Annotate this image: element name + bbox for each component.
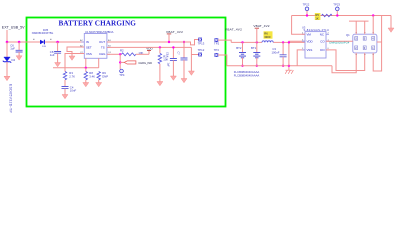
diode D4 TVS xyxy=(3,42,16,76)
ground arrow pack minus xyxy=(388,16,394,33)
test point TP10 xyxy=(303,2,310,16)
node junction (57.6,42) xyxy=(56,41,59,44)
block frame BATTERY CHARGING xyxy=(27,18,226,107)
node junction (357.3,16.8) xyxy=(372,14,374,16)
svg-text:VBAT_4V2: VBAT_4V2 xyxy=(166,30,183,34)
capacitor C5 xyxy=(166,46,177,76)
wire battery bottom rail xyxy=(227,65,332,67)
ground arrow R9 xyxy=(96,83,102,87)
ground chassis xyxy=(285,65,293,74)
ground arrow C4 xyxy=(62,95,68,99)
svg-text:TS: TS xyxy=(101,46,105,50)
wire U1 CHG row xyxy=(107,53,122,55)
wire TP3 to bottom rail xyxy=(218,55,227,66)
svg-text:TP22: TP22 xyxy=(303,2,310,6)
ground arrow D4 xyxy=(4,76,10,80)
ground arrow C8 xyxy=(55,63,61,67)
svg-text:100nF: 100nF xyxy=(272,51,280,55)
wire TP2 to battery rail xyxy=(218,40,231,42)
wire U3 VM riser xyxy=(292,16,305,35)
diode D35 xyxy=(32,28,53,48)
ground arrow U1 pin2 xyxy=(69,56,75,60)
svg-text:Q1: Q1 xyxy=(346,33,350,37)
wire U1 TS rail xyxy=(107,46,191,48)
wire U1 pin2 to ground xyxy=(67,47,84,56)
resistor R5 xyxy=(315,13,332,20)
wire U3 DO route xyxy=(326,50,365,71)
svg-text:OUT: OUT xyxy=(99,40,105,44)
node junction (288.9,42.4) xyxy=(288,41,290,43)
battery BT1 xyxy=(251,41,260,67)
ground arrow C6 xyxy=(16,56,22,60)
test point TP13 xyxy=(198,38,205,46)
wire Q1 top bar xyxy=(349,20,369,22)
wire U3 VSS down xyxy=(297,50,305,66)
svg-text:CHG: CHG xyxy=(99,52,106,56)
wire bottom rail to Q1 source xyxy=(332,53,356,73)
node junction (85.8,67.8) xyxy=(85,67,87,69)
inductor FB1 xyxy=(262,31,273,42)
wire R3 to C4 xyxy=(64,80,66,86)
svg-text:VSS: VSS xyxy=(307,48,313,52)
svg-text:NSR05F40NXT5G: NSR05F40NXT5G xyxy=(32,31,53,35)
node junction (7,42) xyxy=(6,41,9,44)
resistor R9 DNP xyxy=(97,71,108,82)
svg-text:3300: 3300 xyxy=(264,35,271,39)
test point TP11 xyxy=(333,2,340,16)
svg-text:CHRG_IND: CHRG_IND xyxy=(138,61,152,65)
svg-text:TP23: TP23 xyxy=(333,2,340,6)
power symbol VBAT_4V2 xyxy=(166,30,183,43)
wire pack minus top xyxy=(292,15,391,17)
svg-text:BT1: BT1 xyxy=(251,46,257,50)
wire TS rail end down xyxy=(190,47,192,71)
svg-text:DO: DO xyxy=(320,48,325,52)
test point TP12 xyxy=(198,48,205,56)
svg-text:SET: SET xyxy=(86,46,92,50)
transistor Q1 dual FET xyxy=(329,33,377,55)
power symbol VBAT_4V2 battery xyxy=(253,24,269,42)
test point TP4 xyxy=(119,69,125,77)
wire U1 bottom pins xyxy=(85,58,87,68)
svg-text:TP4: TP4 xyxy=(119,73,125,77)
wire EXT_USB_5V stub xyxy=(6,30,8,42)
svg-text:BATTERY CHARGING: BATTERY CHARGING xyxy=(59,20,137,28)
svg-text:1uF: 1uF xyxy=(50,53,55,57)
capacitor C3 xyxy=(272,41,287,67)
ground arrow R4 xyxy=(157,82,163,86)
port tag CHRG_IND xyxy=(120,61,152,65)
svg-text:1K: 1K xyxy=(315,16,318,20)
wire main input y42 xyxy=(7,41,84,43)
svg-text:TP3: TP3 xyxy=(214,48,220,52)
ground arrow TS rail xyxy=(188,71,194,75)
wire Q1 top risers xyxy=(355,21,357,34)
svg-text:VSS: VSS xyxy=(86,52,92,56)
svg-text:CO: CO xyxy=(320,39,325,43)
svg-text:1uF: 1uF xyxy=(167,63,170,68)
svg-text:3.4K: 3.4K xyxy=(89,74,95,78)
node junction (120.2,54.3) xyxy=(119,53,121,55)
svg-text:BT2: BT2 xyxy=(236,46,242,50)
wire Q1 right riser gate2 xyxy=(373,16,381,71)
resistor R4 xyxy=(158,47,169,81)
wire U1 OUT rail xyxy=(107,40,199,45)
svg-text:D4: D4 xyxy=(12,58,16,62)
svg-text:ESD05V32D-TP: ESD05V32D-TP xyxy=(9,84,13,113)
capacitor C6 xyxy=(10,42,22,56)
capacitor C4 xyxy=(62,85,77,94)
svg-text:TP2: TP2 xyxy=(214,42,220,46)
op-amp U1 charger IC xyxy=(80,30,114,58)
node junction (120.2,62.4) xyxy=(119,61,121,63)
resistor R8 3.4K xyxy=(84,68,95,83)
wire TP12 stub xyxy=(191,54,198,56)
svg-text:10nF: 10nF xyxy=(70,88,77,92)
svg-text:1uF: 1uF xyxy=(10,46,15,50)
wire battery top rail xyxy=(231,41,262,43)
wire U3 CO to Q1 xyxy=(326,40,353,42)
svg-text:R2: R2 xyxy=(120,49,124,53)
test point TP2 xyxy=(214,39,220,46)
svg-text:VDD: VDD xyxy=(307,39,313,43)
ground arrow C7 xyxy=(181,79,187,83)
IC U3 protection xyxy=(302,26,330,58)
svg-text:IN: IN xyxy=(86,40,89,44)
resistor R2 xyxy=(120,49,144,56)
svg-text:NC: NC xyxy=(320,33,324,37)
ground arrow C5 xyxy=(170,76,176,80)
wire R2 to VDD xyxy=(136,53,149,55)
svg-text:EXT_USB_5V: EXT_USB_5V xyxy=(2,26,25,30)
svg-text:TP12: TP12 xyxy=(198,48,205,52)
wire U1 pin3 to R3 xyxy=(65,54,84,72)
ground arrow R8 xyxy=(83,83,89,87)
svg-text:FLCB0804040AAAA: FLCB0804040AAAA xyxy=(234,74,260,78)
capacitor C7 xyxy=(176,41,187,79)
svg-text:2.7K: 2.7K xyxy=(69,74,75,78)
battery BT2 xyxy=(236,41,246,67)
svg-text:DNP: DNP xyxy=(102,74,108,78)
resistor R3 xyxy=(63,71,75,80)
node junction (19.1,42) xyxy=(18,41,21,44)
capacitor C8 xyxy=(50,42,61,63)
svg-text:10K: 10K xyxy=(163,58,168,62)
svg-text:TP13: TP13 xyxy=(198,42,205,46)
power symbol VDD xyxy=(146,47,153,55)
svg-text:VM: VM xyxy=(307,33,312,37)
wire CHRG branch xyxy=(119,54,121,69)
svg-text:VBAT_4V2: VBAT_4V2 xyxy=(225,27,242,31)
test point TP3 xyxy=(214,48,220,57)
svg-text:VBAT_4V2: VBAT_4V2 xyxy=(253,24,269,28)
wire U3 VDD down xyxy=(289,41,305,66)
node junction (159.9,47.4) xyxy=(159,46,161,48)
